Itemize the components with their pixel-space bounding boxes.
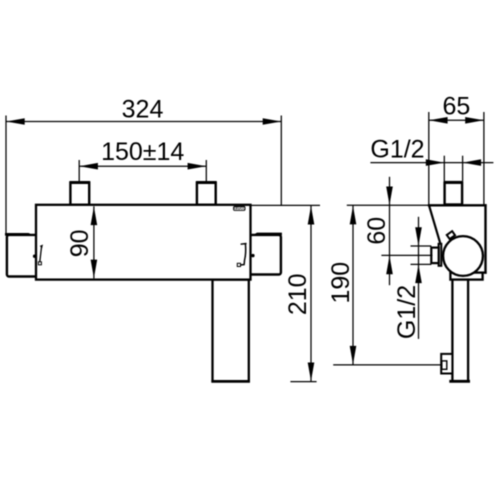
svg-text:G1/2: G1/2: [393, 285, 421, 339]
side view: tilted button: [447, 231, 455, 239]
front view: right inlet connector: [196, 181, 216, 205]
svg-text:G1/2: G1/2: [370, 135, 424, 163]
front view: left inlet connector: [70, 181, 90, 205]
dimension 60: [363, 177, 433, 285]
svg-text:65: 65: [442, 93, 470, 121]
front view: main body: [36, 205, 251, 280]
front view: left temperature dot: [33, 255, 36, 258]
front view: left needle marker: [38, 245, 43, 265]
side view: hose clip: [441, 354, 452, 374]
dimension 65: [429, 93, 484, 205]
svg-text:210: 210: [284, 273, 312, 315]
side view: outlet flange: [439, 244, 442, 266]
front view: left knob: [5, 233, 37, 277]
svg-text:150±14: 150±14: [101, 138, 184, 166]
front view: KEUCO logo: [233, 207, 246, 211]
dimension 90: [66, 206, 97, 278]
svg-text:60: 60: [363, 217, 391, 245]
dimension G1/2 outlet: [393, 217, 432, 339]
side view: body: [428, 204, 487, 274]
svg-text:90: 90: [66, 229, 94, 257]
side view: bottom flange: [450, 273, 482, 280]
side view: outlet box: [431, 248, 438, 264]
dimension 190: [327, 205, 442, 365]
front view: spout: [211, 280, 250, 382]
dimension 210: [249, 205, 320, 381]
svg-text:324: 324: [122, 96, 164, 124]
svg-text:KEUCO: KEUCO: [233, 207, 246, 211]
side view: top connector: [444, 181, 463, 205]
dimension 150±14: [79, 138, 206, 182]
side view: knob circle: [443, 236, 483, 276]
front view: right knob: [250, 233, 282, 275]
svg-text:190: 190: [327, 262, 355, 304]
dimension G1/2 top: [370, 135, 493, 181]
front view: right lever marker: [237, 244, 246, 267]
side view: outlet pipe: [449, 280, 470, 382]
front view: right dot: [251, 254, 254, 257]
dimension 324: [6, 96, 281, 234]
